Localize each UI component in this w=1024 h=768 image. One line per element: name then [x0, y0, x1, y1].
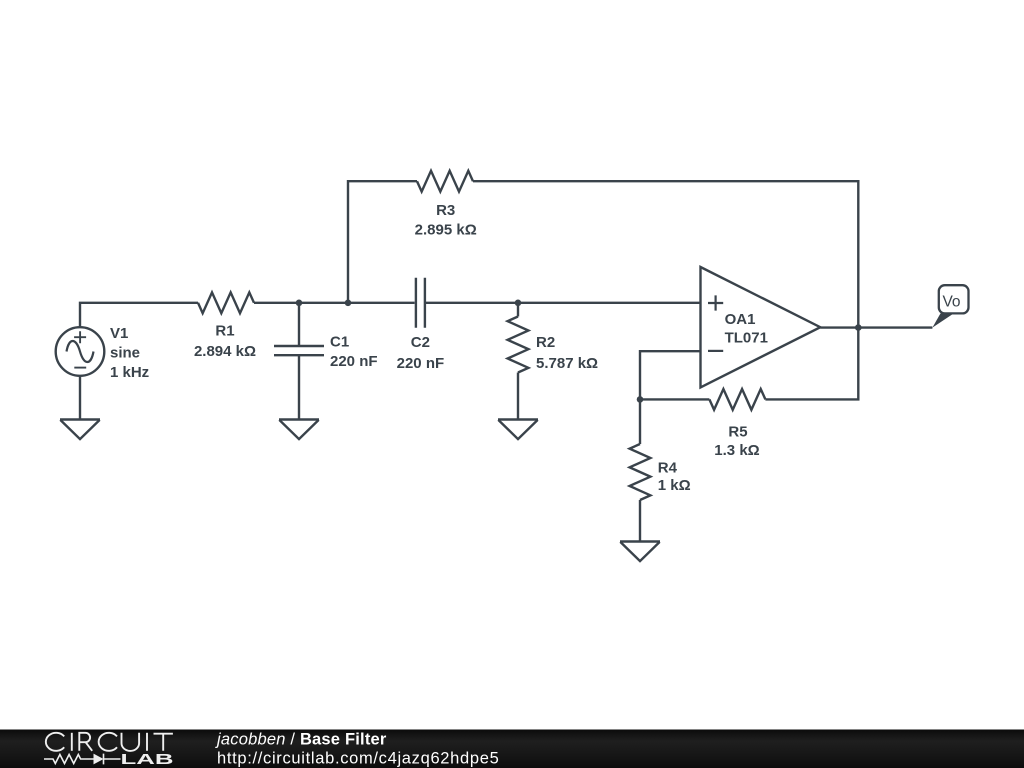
node junction dot at op-amp output [855, 324, 862, 331]
wire R2 bottom to ground [517, 373, 519, 420]
CircuitLab logo diode triangle [94, 754, 104, 765]
node flag Vo pointer [932, 313, 953, 327]
capacitor C2 [416, 278, 425, 328]
op-amp non-inverting input mark [708, 295, 723, 310]
svg-text:220 nF: 220 nF [397, 355, 445, 372]
node junction dot on main wire at R3 branch [345, 300, 352, 307]
svg-text:1 kHz: 1 kHz [110, 364, 149, 381]
op-amp OA1 [701, 267, 821, 387]
V1 plus polarity mark [74, 331, 86, 343]
svg-text:1 kΩ: 1 kΩ [658, 477, 691, 494]
svg-text:LAB: LAB [121, 752, 174, 768]
wire op-amp output to Vo [820, 326, 932, 328]
svg-text:sine: sine [110, 345, 140, 362]
svg-text:C1: C1 [330, 333, 349, 350]
wire node A up to R3 left [348, 181, 417, 303]
svg-text:jacobben / Base Filter: jacobben / Base Filter [215, 731, 387, 749]
V1 minus polarity mark [74, 367, 86, 369]
svg-text:1.3 kΩ: 1.3 kΩ [714, 442, 759, 459]
node junction dot on main wire at C1 [296, 300, 303, 307]
node junction dot at R4/R5 [637, 396, 644, 403]
svg-text:220 nF: 220 nF [330, 353, 378, 370]
wire R5 left to node B [640, 398, 709, 400]
CircuitLab logo resistor-diode glyph [44, 754, 121, 765]
wire V1 top to R1 [80, 303, 198, 327]
op-amp inverting input mark [708, 350, 723, 352]
svg-text:Vo: Vo [942, 294, 960, 311]
svg-text:http://circuitlab.com/c4jazq62: http://circuitlab.com/c4jazq62hdpe5 [217, 750, 499, 768]
wire V1 bottom to ground [79, 376, 81, 420]
ground below R4 [620, 540, 660, 542]
resistor R1 [198, 292, 254, 313]
node junction dot on main wire at R2 [515, 300, 522, 307]
wire op-amp inverting input to node B [640, 351, 701, 399]
wire R1 to C2 left [254, 302, 415, 304]
CircuitLab logo wordmark CIRCUIT [46, 733, 173, 751]
svg-text:R4: R4 [658, 460, 678, 477]
wire node C to R2 top [517, 303, 519, 317]
svg-text:2.894 kΩ: 2.894 kΩ [194, 343, 256, 360]
wire C1 bottom to ground [298, 355, 300, 419]
svg-text:R5: R5 [728, 424, 747, 441]
V1 sine symbol [67, 341, 94, 362]
svg-text:R3: R3 [436, 202, 455, 219]
capacitor C1 [274, 346, 324, 355]
svg-text:2.895 kΩ: 2.895 kΩ [415, 222, 477, 239]
ground below V1 [60, 418, 100, 420]
svg-text:TL071: TL071 [725, 330, 768, 347]
svg-text:R1: R1 [215, 323, 234, 340]
ground below R2 [498, 418, 538, 420]
resistor R5 [709, 389, 765, 410]
wire C2 right to op-amp + input [426, 302, 701, 304]
ground below C1 [279, 418, 319, 420]
resistor R2 [508, 317, 529, 373]
wire node B to R4 top [639, 399, 641, 444]
svg-text:OA1: OA1 [725, 311, 756, 328]
wire R3 right down to R5 right [473, 181, 858, 399]
resistor R4 [630, 444, 651, 500]
voltage source V1 [56, 327, 105, 376]
svg-text:C2: C2 [411, 334, 430, 351]
svg-text:V1: V1 [110, 325, 128, 342]
wire node A2 to C1 top [298, 303, 300, 346]
wire R4 bottom to ground [639, 500, 641, 542]
footer bar [0, 730, 1024, 768]
resistor R3 [417, 171, 473, 192]
svg-text:5.787 kΩ: 5.787 kΩ [536, 355, 598, 372]
node flag Vo [939, 285, 969, 313]
svg-text:R2: R2 [536, 334, 555, 351]
